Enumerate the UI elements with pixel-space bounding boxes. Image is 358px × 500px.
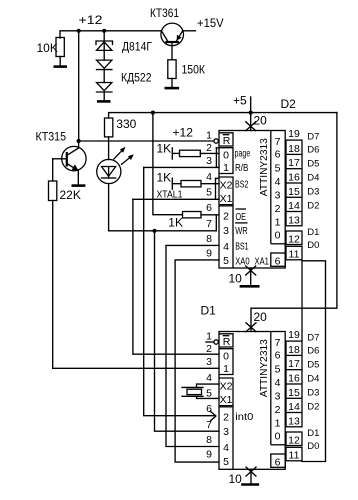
svg-text:6: 6 — [206, 202, 212, 214]
node junction dot D (+5 rail to 1K3 riser) — [151, 111, 155, 115]
ground under diode chain — [97, 100, 111, 103]
D1 left name column box R — [219, 334, 233, 347]
ground under D2 pin10 — [240, 285, 260, 288]
svg-text:6: 6 — [275, 149, 281, 161]
Q1 emitter arrow (PNP, pointing to base) — [177, 35, 182, 41]
svg-text:14: 14 — [288, 401, 300, 413]
svg-text:8: 8 — [206, 434, 212, 446]
svg-text:3: 3 — [275, 190, 281, 202]
svg-text:3: 3 — [223, 426, 229, 438]
svg-text:WR: WR — [235, 226, 248, 237]
wire D2 pin8 to D1 pin8 — [166, 245, 219, 446]
svg-text:2: 2 — [223, 412, 229, 424]
D2 pin 10 cross mark — [246, 266, 256, 275]
svg-text:1: 1 — [206, 331, 212, 343]
tie bar D2 pins 6-7 — [215, 215, 217, 231]
svg-text:17: 17 — [288, 358, 300, 370]
svg-text:2: 2 — [206, 343, 212, 355]
svg-text:page: page — [235, 149, 251, 160]
svg-text:10K: 10K — [37, 41, 58, 55]
svg-text:X1: X1 — [220, 193, 233, 205]
svg-text:XA0: XA0 — [235, 256, 250, 267]
crystal ZQ1 pin5 stub — [197, 396, 220, 398]
svg-text:D2: D2 — [281, 97, 297, 111]
svg-text:4: 4 — [223, 442, 229, 454]
wire +5 entry stub — [250, 97, 252, 131]
wire D2 pin4 upper stub — [216, 177, 220, 179]
IC D1 ATTINY2313 outline — [219, 332, 285, 470]
svg-text:+12: +12 — [79, 13, 103, 27]
svg-text:D3: D3 — [307, 387, 319, 398]
svg-text:D0: D0 — [307, 441, 319, 452]
svg-text:4: 4 — [275, 176, 281, 188]
svg-text:D4: D4 — [307, 172, 319, 183]
wire D1 pin10 to ground — [250, 469, 252, 484]
Q2 base wire — [53, 158, 67, 160]
Q2 emitter with NPN arrow — [67, 164, 78, 171]
svg-text:int0: int0 — [235, 412, 253, 423]
svg-text:XA1: XA1 — [255, 256, 270, 267]
ground under D1 pin10 — [241, 483, 259, 486]
svg-text:3: 3 — [206, 356, 212, 368]
wire D2 pin5 XTAL1 line — [133, 198, 219, 200]
svg-text:КТ361: КТ361 — [150, 6, 179, 20]
svg-text:+12: +12 — [173, 126, 194, 140]
D1 pin 20 cross mark — [246, 323, 256, 332]
wire pin-box column link between ICs — [301, 260, 303, 341]
resistor R2 150K — [168, 60, 176, 79]
svg-text:D1: D1 — [201, 304, 217, 318]
svg-text:BS1: BS1 — [235, 241, 249, 252]
D2 right pin box column — [286, 140, 302, 226]
svg-text:X2: X2 — [220, 180, 233, 192]
resistor R1 10K — [56, 38, 64, 57]
svg-text:5: 5 — [275, 163, 281, 175]
wire D2 pin3 line to bus riser — [144, 166, 219, 168]
D1 right pin box column — [286, 341, 302, 427]
wire pin1 +12 line to D2 — [79, 140, 214, 142]
tie bar D2 pins 4-5 — [215, 178, 217, 199]
D1 right name box 6 (bottom) — [271, 454, 285, 467]
svg-text:4: 4 — [275, 377, 281, 389]
D1 left name column box 2,3,4,5 — [219, 407, 233, 469]
svg-text:0: 0 — [275, 230, 281, 242]
svg-text:12: 12 — [288, 233, 300, 245]
svg-text:4: 4 — [223, 241, 229, 253]
wire riser rail-to-collector-node — [78, 31, 80, 141]
resistor R6 1K (pins4/5) left terminal — [171, 178, 173, 189]
svg-text:11: 11 — [289, 248, 300, 260]
svg-text:13: 13 — [288, 214, 300, 226]
svg-text:3: 3 — [223, 225, 229, 237]
D1 pin1 inversion bubble — [214, 340, 218, 344]
svg-text:19: 19 — [288, 128, 300, 140]
svg-text:0: 0 — [223, 150, 229, 162]
svg-text:22K: 22K — [60, 188, 81, 202]
diode VD1 zener D814G (cathode bar with hooks, apex up) — [96, 41, 113, 45]
svg-text:ATTINY2313: ATTINY2313 — [259, 339, 270, 397]
D2 pin 20 cross mark — [246, 122, 256, 131]
svg-text:D1: D1 — [307, 227, 319, 238]
transistor Q2 KT315 (NPN) — [62, 146, 86, 170]
svg-text:D2: D2 — [307, 402, 319, 413]
svg-text:19: 19 — [288, 329, 300, 341]
wire Q2 base to 22K — [52, 159, 54, 181]
node junction dot F (pin7 line branch to D1 pin7) — [152, 229, 156, 233]
D2 left name column box R — [219, 133, 233, 146]
svg-text:OE: OE — [236, 212, 247, 223]
svg-text:1: 1 — [223, 162, 229, 174]
resistor R5 1K body — [180, 150, 201, 156]
svg-text:4: 4 — [206, 171, 212, 183]
ground under 10K — [54, 65, 68, 68]
svg-text:КТ315: КТ315 — [36, 130, 67, 144]
D1 left name column box X2,X1 — [219, 378, 233, 406]
svg-text:+5: +5 — [233, 93, 247, 107]
svg-text:R: R — [223, 135, 231, 147]
resistor R5 1K (pins2/3) left terminal — [171, 148, 173, 159]
resistor R6 1K body — [181, 181, 201, 187]
crystal ZQ1 body — [187, 389, 202, 394]
LED emission arrows — [113, 148, 124, 159]
svg-text:5: 5 — [206, 187, 212, 199]
svg-text:9: 9 — [206, 248, 212, 260]
svg-text:2: 2 — [275, 404, 281, 416]
svg-text:BS2: BS2 — [235, 180, 249, 191]
svg-text:D5: D5 — [307, 360, 319, 371]
wire XTAL1 net to D1 pin2 — [133, 199, 219, 354]
wire R7 to D2 pin6 — [201, 214, 219, 216]
D1 left name column box 0,1 — [219, 349, 233, 375]
svg-text:D5: D5 — [307, 159, 319, 170]
D2 left name column box 2,3,4,5 — [219, 206, 233, 268]
LED VD4 — [97, 159, 121, 183]
ground under KT315 emitter — [72, 184, 86, 187]
svg-text:D7: D7 — [307, 332, 319, 343]
node junction dot B (rail to diode chain) — [102, 29, 106, 33]
svg-text:15: 15 — [288, 387, 300, 399]
D2 right name column divider — [270, 131, 272, 244]
wire between diodes 1-2 — [103, 50, 105, 60]
D1 right pin box 11 — [286, 447, 302, 461]
D2 right name box 6 (bottom) — [271, 253, 285, 266]
svg-text:ATTINY2313: ATTINY2313 — [259, 138, 270, 196]
wire LED down to D2 pin7 line — [109, 184, 217, 231]
node junction dot C (collector node on +12 wire) — [77, 139, 81, 143]
wire 150K bottom — [171, 79, 173, 88]
svg-text:17: 17 — [288, 157, 300, 169]
D2 left name column box X2,X1 — [219, 177, 233, 205]
ground under 150K — [165, 87, 180, 90]
wire R5 to D2 pin2 — [200, 152, 219, 154]
wire +5 down to D1 pin20 — [251, 113, 337, 332]
wire Q1 base to 150K — [171, 42, 173, 60]
svg-text:12: 12 — [288, 434, 300, 446]
wire D2 pin3 net to D1 pin6 — [144, 167, 215, 415]
wire 22K down to D1 pin3 — [53, 201, 219, 369]
svg-text:1: 1 — [275, 216, 281, 228]
wire 10K bottom — [59, 57, 61, 67]
crystal ZQ1 plates — [182, 386, 203, 388]
resistor R7 1K (pin6) body — [183, 212, 202, 218]
svg-text:6: 6 — [275, 255, 281, 267]
svg-text:3: 3 — [275, 391, 281, 403]
svg-text:1K: 1K — [168, 215, 183, 229]
diode VD2 KD522 (apex down) — [97, 60, 112, 68]
D1 pin1 stub — [206, 341, 214, 343]
wire 330 to LED — [108, 137, 110, 160]
D1 pin 10 cross mark — [246, 467, 256, 476]
D2 right pin box 11 — [286, 246, 302, 259]
svg-text:3: 3 — [206, 155, 212, 167]
svg-text:X2: X2 — [220, 381, 233, 393]
svg-text:1: 1 — [223, 363, 229, 375]
svg-text:0: 0 — [275, 431, 281, 443]
wire riser from +5 rail to 1K3 — [153, 113, 183, 215]
D1 pin6 int0 arrow — [210, 411, 216, 421]
svg-text:1K: 1K — [157, 141, 172, 155]
wire between diodes 2-3 — [103, 70, 105, 83]
wire diode chain bottom — [103, 92, 105, 101]
node junction dot A (rail to KT315 collector riser) — [77, 29, 81, 33]
resistor R3 22K — [49, 181, 57, 201]
svg-text:11: 11 — [289, 449, 300, 461]
svg-text:5: 5 — [223, 456, 229, 468]
svg-text:10: 10 — [229, 472, 243, 486]
IC D2 ATTINY2313 outline — [219, 131, 285, 269]
svg-text:X1: X1 — [220, 394, 233, 406]
svg-text:2: 2 — [223, 211, 229, 223]
svg-text:Д814Г: Д814Г — [122, 40, 152, 54]
svg-text:1K: 1K — [157, 171, 172, 185]
wire D2 pin10 to ground — [250, 268, 252, 286]
svg-text:0: 0 — [223, 351, 229, 363]
svg-text:D2: D2 — [307, 201, 319, 212]
transistor Q1 KT361 (PNP, base bar horizontal at bottom) — [161, 23, 184, 46]
diode VD3 KD522 (apex down) — [97, 83, 112, 91]
D2 pin1 inversion bubble — [214, 139, 218, 143]
resistor R4 330 — [105, 118, 113, 137]
svg-text:150К: 150К — [182, 63, 206, 77]
D2 right pin box 12 — [286, 231, 302, 245]
svg-text:R: R — [223, 336, 231, 348]
svg-text:6: 6 — [275, 456, 281, 468]
svg-text:D1: D1 — [307, 428, 319, 439]
wire D2 pin7 net to D1 pin7 — [155, 231, 220, 431]
svg-text:КД522: КД522 — [121, 71, 152, 85]
svg-text:D4: D4 — [307, 373, 319, 384]
svg-text:20: 20 — [254, 310, 268, 324]
wire +12 top rail — [60, 31, 162, 38]
wire +15V — [183, 30, 196, 32]
svg-text:+15V: +15V — [197, 16, 224, 30]
svg-text:9: 9 — [206, 449, 212, 461]
Q2 collector wire — [67, 141, 79, 156]
svg-text:7: 7 — [206, 218, 212, 230]
svg-text:16: 16 — [288, 373, 300, 385]
svg-text:330: 330 — [116, 117, 136, 131]
wire D2 pin9 to D1 pin9 — [175, 260, 219, 462]
svg-text:D3: D3 — [307, 186, 319, 197]
svg-text:R/B: R/B — [235, 163, 249, 174]
svg-text:8: 8 — [206, 233, 212, 245]
svg-text:14: 14 — [288, 200, 300, 212]
svg-text:20: 20 — [254, 114, 268, 128]
wire D2 pin2 upper stub — [216, 147, 219, 149]
wire Q2 emitter down — [77, 171, 79, 186]
svg-text:18: 18 — [288, 344, 300, 356]
crystal ZQ1 pin4 stub — [197, 384, 220, 387]
svg-text:1: 1 — [206, 130, 212, 142]
svg-text:5: 5 — [275, 364, 281, 376]
svg-text:1: 1 — [275, 417, 281, 429]
wire D2 pin11 to D1 pin11 — [302, 261, 326, 462]
svg-text:15: 15 — [288, 186, 300, 198]
svg-text:D6: D6 — [307, 145, 319, 156]
svg-text:D7: D7 — [307, 131, 319, 142]
wire +5 rail — [109, 113, 337, 118]
svg-text:7: 7 — [275, 136, 281, 148]
wire R6 to D2 pin4 — [201, 183, 219, 185]
svg-text:2: 2 — [275, 203, 281, 215]
svg-text:D6: D6 — [307, 346, 319, 357]
svg-text:5: 5 — [223, 255, 229, 267]
D1 right pin box 12 — [286, 432, 302, 446]
svg-text:6: 6 — [275, 350, 281, 362]
svg-text:D0: D0 — [307, 240, 319, 251]
D1 right name column divider — [270, 332, 272, 445]
node junction dot E (+5 rail to D2 pin20) — [249, 111, 253, 115]
svg-text:18: 18 — [288, 143, 300, 155]
tie bar D2 pins 2-3 — [215, 148, 217, 168]
svg-text:2: 2 — [206, 142, 212, 154]
svg-text:10: 10 — [229, 272, 243, 286]
svg-text:6: 6 — [206, 403, 212, 415]
svg-text:16: 16 — [288, 172, 300, 184]
D2 left name column box 0,1 — [219, 148, 233, 174]
diode chain wire top — [103, 31, 105, 51]
svg-text:4: 4 — [206, 372, 212, 384]
svg-text:7: 7 — [275, 337, 281, 349]
svg-text:13: 13 — [288, 415, 300, 427]
